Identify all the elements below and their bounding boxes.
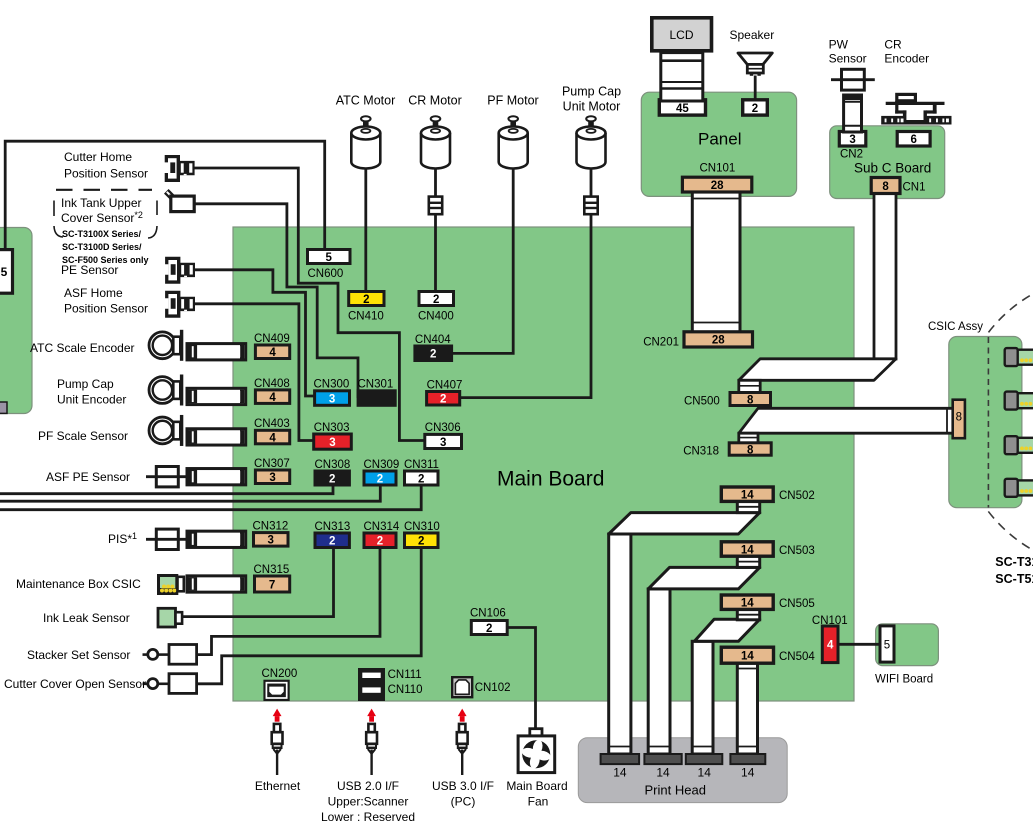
svg-text:Upper:Scanner: Upper:Scanner xyxy=(328,795,409,809)
maintenance box CSIC icon xyxy=(157,574,184,595)
cutter cover open sensor icon xyxy=(143,674,197,694)
svg-text:Sensor: Sensor xyxy=(829,52,867,66)
connector CN408 xyxy=(255,390,289,404)
svg-text:CN303: CN303 xyxy=(314,422,350,434)
wire ink tank cover sensor to CN301 xyxy=(194,204,358,398)
svg-text:CN403: CN403 xyxy=(254,418,290,430)
svg-text:CN1: CN1 xyxy=(903,182,926,194)
svg-text:CN312: CN312 xyxy=(253,521,289,533)
svg-text:CN110: CN110 xyxy=(388,684,423,696)
svg-text:CN408: CN408 xyxy=(254,378,290,390)
svg-text:14: 14 xyxy=(741,766,755,780)
connector CN504 14 xyxy=(721,647,773,663)
connector WIFI CN101 4 xyxy=(822,626,838,663)
connector CN310 xyxy=(405,533,439,548)
motor CR xyxy=(421,116,450,168)
svg-text:ASF PE Sensor: ASF PE Sensor xyxy=(46,470,130,484)
connector CN600 xyxy=(308,250,351,264)
wire CR motor to CN400 xyxy=(434,164,437,292)
svg-text:CR: CR xyxy=(884,38,902,52)
CSIC cartridge connector 4 xyxy=(1005,479,1033,497)
svg-text:7: 7 xyxy=(269,579,275,591)
svg-text:4: 4 xyxy=(269,432,276,444)
svg-text:Maintenance Box CSIC: Maintenance Box CSIC xyxy=(16,577,141,591)
svg-text:2: 2 xyxy=(430,349,436,361)
wire PE sensor to CN300 xyxy=(195,270,315,396)
connector CN400 xyxy=(419,292,454,306)
wire speaker to panel 2 xyxy=(754,76,757,101)
connector CN502 14 xyxy=(721,487,773,502)
connector CN102 USB3 xyxy=(452,677,472,697)
svg-text:PW: PW xyxy=(829,38,849,52)
connector CN315 xyxy=(255,576,290,592)
connector left board 5 xyxy=(0,250,13,294)
svg-text:Unit Encoder: Unit Encoder xyxy=(57,393,126,407)
svg-text:CN106: CN106 xyxy=(470,608,506,620)
svg-text:CN502: CN502 xyxy=(779,490,815,502)
connector CN303 xyxy=(314,434,352,449)
wire CN101 to WIFI 5 xyxy=(838,643,880,646)
connector CN307 xyxy=(255,470,289,484)
ribbon CN504 to print head xyxy=(737,663,757,754)
svg-text:2: 2 xyxy=(377,536,383,548)
dashed circle around CSIC assy xyxy=(958,275,1033,569)
wire PF motor to CN404 xyxy=(452,164,514,353)
ink leak sensor icon xyxy=(158,608,182,627)
encoder ATC scale xyxy=(149,330,190,361)
svg-text:Panel: Panel xyxy=(698,130,741,149)
connector CN318 8 xyxy=(729,443,771,457)
left board (cut off) xyxy=(0,228,32,414)
svg-text:CN308: CN308 xyxy=(315,459,351,471)
main board xyxy=(233,227,854,701)
CSIC cartridge connector 3 xyxy=(1005,436,1033,454)
svg-text:WIFI Board: WIFI Board xyxy=(875,674,933,686)
svg-text:PF Motor: PF Motor xyxy=(487,94,538,108)
svg-text:CN300: CN300 xyxy=(314,379,350,391)
left board edge connector xyxy=(0,402,7,413)
svg-text:CSIC Assy: CSIC Assy xyxy=(928,321,983,333)
svg-text:CN504: CN504 xyxy=(779,651,815,663)
connector CN313 xyxy=(315,533,349,548)
svg-text:CN600: CN600 xyxy=(308,268,344,280)
svg-text:45: 45 xyxy=(676,103,689,115)
connector CN311 xyxy=(405,471,439,485)
svg-text:28: 28 xyxy=(712,335,725,347)
sensor ASF PE xyxy=(146,467,189,487)
svg-text:SC-T3100X Series/: SC-T3100X Series/ xyxy=(62,229,142,239)
connector CN503 14 xyxy=(721,542,773,557)
main board fan icon xyxy=(518,729,555,773)
svg-text:Position Sensor: Position Sensor xyxy=(64,167,148,181)
connector sub C 6 xyxy=(897,132,930,147)
svg-text:CN101: CN101 xyxy=(812,615,848,627)
connector CN300 xyxy=(315,391,350,406)
svg-text:Stacker Set Sensor: Stacker Set Sensor xyxy=(27,648,130,662)
panel board xyxy=(641,92,796,196)
svg-text:3: 3 xyxy=(329,393,335,405)
CR encoder icon xyxy=(881,94,951,124)
LCD connector column xyxy=(661,53,703,101)
sensor ASF home position xyxy=(165,291,195,318)
svg-text:2: 2 xyxy=(440,394,446,406)
svg-text:CN111: CN111 xyxy=(388,669,422,681)
svg-text:Position Sensor: Position Sensor xyxy=(64,302,148,316)
svg-text:4: 4 xyxy=(269,392,276,404)
connector CN306 xyxy=(425,434,462,448)
svg-text:14: 14 xyxy=(698,766,712,780)
wire flat cable 3 to CN311 xyxy=(0,485,421,510)
svg-text:SC-T3100D Series/: SC-T3100D Series/ xyxy=(62,242,142,252)
svg-text:2: 2 xyxy=(377,473,383,485)
stacker set sensor icon xyxy=(143,645,197,665)
svg-text:4: 4 xyxy=(827,640,834,652)
print head bar 2 xyxy=(644,754,681,764)
svg-text:2: 2 xyxy=(433,294,439,306)
svg-text:PF Scale Sensor: PF Scale Sensor xyxy=(38,429,128,443)
svg-text:CN318: CN318 xyxy=(683,446,719,458)
USB3 plug xyxy=(457,709,468,775)
wire stacker set sensor to CN314 xyxy=(197,548,380,655)
svg-text:4: 4 xyxy=(269,347,276,359)
print head bar 4 xyxy=(730,754,765,764)
wire cutter home sensor to CN306 xyxy=(194,168,425,441)
svg-text:3: 3 xyxy=(440,437,446,449)
svg-text:5: 5 xyxy=(1,265,8,279)
motor PF xyxy=(499,116,528,168)
svg-text:2: 2 xyxy=(418,473,424,485)
CSIC assy dashed divider xyxy=(987,337,989,508)
svg-text:6: 6 xyxy=(910,134,916,146)
svg-text:CN200: CN200 xyxy=(262,668,298,680)
svg-text:CN314: CN314 xyxy=(364,521,400,533)
svg-text:3: 3 xyxy=(329,437,335,449)
sensor cutter home position xyxy=(165,155,195,182)
svg-text:CN315: CN315 xyxy=(254,564,290,576)
connector panel LCD 45 xyxy=(659,100,705,115)
connector CN407 xyxy=(427,392,460,406)
svg-text:SC-T510: SC-T510 xyxy=(995,572,1033,586)
svg-text:14: 14 xyxy=(656,766,670,780)
ribbon CN505 to print head xyxy=(692,609,760,754)
svg-text:CN400: CN400 xyxy=(418,311,454,323)
connector CN201 28 xyxy=(684,332,753,347)
svg-text:CN301: CN301 xyxy=(358,379,394,391)
motor pump cap unit xyxy=(577,116,606,168)
wire flat cable 2 to CN309 xyxy=(0,485,380,501)
svg-text:5: 5 xyxy=(326,252,333,264)
connector CN500 8 xyxy=(730,393,771,407)
svg-text:(PC): (PC) xyxy=(451,795,476,809)
svg-text:Print Head: Print Head xyxy=(645,783,706,798)
svg-text:CN410: CN410 xyxy=(348,311,384,323)
svg-text:CN309: CN309 xyxy=(364,459,400,471)
connector CN314 xyxy=(364,533,396,548)
svg-text:Fan: Fan xyxy=(528,795,549,809)
USB2 plug xyxy=(366,709,377,775)
wire CN106 to fan xyxy=(507,628,535,729)
svg-text:Cutter Home: Cutter Home xyxy=(64,150,132,164)
svg-text:Main Board: Main Board xyxy=(497,468,604,491)
wire ATC motor to CN410 xyxy=(364,164,367,292)
WIFI board xyxy=(876,624,939,666)
print head xyxy=(578,738,787,803)
svg-text:8: 8 xyxy=(956,412,962,424)
ribbon CN502 to print head xyxy=(609,501,760,754)
svg-text:ASF Home: ASF Home xyxy=(64,286,123,300)
inline connector on CR motor wire xyxy=(429,197,442,215)
svg-text:CN404: CN404 xyxy=(415,334,451,346)
svg-text:Main Board: Main Board xyxy=(506,779,567,793)
svg-text:8: 8 xyxy=(882,181,889,193)
connector CN309 xyxy=(364,471,396,485)
svg-text:CN311: CN311 xyxy=(404,459,439,471)
svg-text:Encoder: Encoder xyxy=(884,52,929,66)
svg-text:3: 3 xyxy=(268,535,274,547)
svg-text:Unit Motor: Unit Motor xyxy=(563,100,621,114)
svg-text:2: 2 xyxy=(329,536,335,548)
svg-text:3: 3 xyxy=(849,134,855,146)
svg-text:CN307: CN307 xyxy=(254,458,290,470)
CSIC cartridge connector 1 xyxy=(1005,348,1033,366)
svg-text:14: 14 xyxy=(741,651,754,663)
connector CN200 ethernet xyxy=(263,680,289,701)
svg-text:CN407: CN407 xyxy=(427,380,463,392)
svg-text:2: 2 xyxy=(363,294,369,306)
CSIC cartridge connector 2 xyxy=(1005,392,1033,410)
wire ink leak sensor to CN313 xyxy=(182,548,334,617)
svg-text:CN310: CN310 xyxy=(404,521,440,533)
wire left board 5 to CN600 xyxy=(5,141,325,250)
svg-text:Ethernet: Ethernet xyxy=(255,779,301,793)
motor ATC xyxy=(351,116,380,168)
svg-text:Ink Tank Upper: Ink Tank Upper xyxy=(61,196,142,210)
svg-text:Pump Cap: Pump Cap xyxy=(57,377,114,391)
connector CN403 xyxy=(255,430,289,444)
svg-text:LCD: LCD xyxy=(670,28,694,42)
ribbon sub C CN1 to CN500 xyxy=(739,193,896,394)
svg-text:8: 8 xyxy=(747,444,754,456)
svg-text:2: 2 xyxy=(418,536,424,548)
ribbon panel CN101 to CN201 xyxy=(692,190,740,333)
encoder pump cap unit xyxy=(149,375,190,406)
svg-text:3: 3 xyxy=(269,472,275,484)
svg-text:2: 2 xyxy=(752,103,758,115)
svg-text:Cutter Cover Open Sensor: Cutter Cover Open Sensor xyxy=(4,677,146,691)
svg-text:2: 2 xyxy=(329,473,335,485)
connector CN111 CN110 USB2 xyxy=(358,668,385,701)
sensor PE xyxy=(165,257,195,284)
wire pump cap motor to CN407 xyxy=(460,164,591,398)
ethernet plug xyxy=(272,709,283,775)
connector CN106 xyxy=(471,621,507,635)
sensor ink tank upper cover xyxy=(166,191,194,211)
speaker icon xyxy=(738,53,772,76)
connector CN505 14 xyxy=(721,595,773,610)
svg-text:14: 14 xyxy=(741,544,754,556)
print head bar 1 xyxy=(601,754,640,764)
connector CN1 8 xyxy=(871,178,900,194)
PW sensor icon xyxy=(831,69,875,90)
svg-text:CN102: CN102 xyxy=(475,682,511,694)
connector CN404 xyxy=(415,346,452,361)
wire ASF home sensor to CN303 xyxy=(195,304,314,441)
svg-text:Sub C Board: Sub C Board xyxy=(854,161,931,176)
connector CN308 xyxy=(315,471,349,485)
connector CN301 xyxy=(358,391,395,406)
svg-text:28: 28 xyxy=(711,180,724,192)
svg-text:CN101: CN101 xyxy=(700,163,736,175)
PW sensor cable xyxy=(844,95,862,132)
connector panel CN101 28 xyxy=(682,177,751,192)
svg-text:CR Motor: CR Motor xyxy=(408,94,461,108)
svg-text:Cover Sensor*2: Cover Sensor*2 xyxy=(61,210,143,225)
LCD xyxy=(652,18,712,51)
connector WIFI 5 xyxy=(880,626,894,662)
svg-text:2: 2 xyxy=(486,623,492,635)
sensor PIS xyxy=(146,529,189,549)
svg-text:CN2: CN2 xyxy=(840,149,863,161)
connector CN2 3 xyxy=(839,132,866,147)
svg-text:PIS*1: PIS*1 xyxy=(108,531,137,546)
connector panel speaker 2 xyxy=(743,100,768,115)
connector CSIC 8 xyxy=(953,400,965,439)
svg-text:14: 14 xyxy=(613,766,627,780)
svg-text:SC-T310: SC-T310 xyxy=(995,555,1033,569)
svg-text:Speaker: Speaker xyxy=(730,28,775,42)
svg-text:ATC Motor: ATC Motor xyxy=(336,94,396,108)
svg-text:ATC Scale Encoder: ATC Scale Encoder xyxy=(30,341,135,355)
svg-text:CN313: CN313 xyxy=(315,521,351,533)
svg-text:CN500: CN500 xyxy=(684,396,720,408)
svg-text:14: 14 xyxy=(741,490,754,502)
svg-text:PE Sensor: PE Sensor xyxy=(61,263,118,277)
svg-text:Lower : Reserved: Lower : Reserved xyxy=(321,810,415,824)
connector CN409 xyxy=(255,345,289,359)
svg-text:CN306: CN306 xyxy=(425,422,461,434)
svg-text:USB 3.0 I/F: USB 3.0 I/F xyxy=(432,779,494,793)
svg-text:CN409: CN409 xyxy=(254,333,290,345)
CSIC assy board xyxy=(949,337,1022,508)
svg-text:14: 14 xyxy=(741,598,754,610)
connector CN410 xyxy=(349,292,384,306)
svg-text:5: 5 xyxy=(884,640,890,652)
sub C board xyxy=(830,126,945,199)
svg-text:CN503: CN503 xyxy=(779,545,815,557)
ribbon CN503 to print head xyxy=(648,556,760,754)
wire cutter cover open sensor to CN310 xyxy=(197,548,422,684)
inline connector on pump cap motor wire xyxy=(584,197,597,215)
ribbon CN318 to CSIC assy xyxy=(739,408,954,444)
sensor PF scale xyxy=(149,415,190,446)
svg-text:CN201: CN201 xyxy=(643,337,679,349)
print head bar 3 xyxy=(686,754,723,764)
svg-text:Ink Leak Sensor: Ink Leak Sensor xyxy=(43,611,130,625)
svg-text:CN505: CN505 xyxy=(779,598,815,610)
svg-text:8: 8 xyxy=(747,394,754,406)
svg-text:Pump Cap: Pump Cap xyxy=(562,85,621,99)
wire flat cable 1 to CN308 xyxy=(0,485,333,494)
connector CN312 xyxy=(254,533,289,547)
svg-text:USB 2.0 I/F: USB 2.0 I/F xyxy=(337,779,399,793)
